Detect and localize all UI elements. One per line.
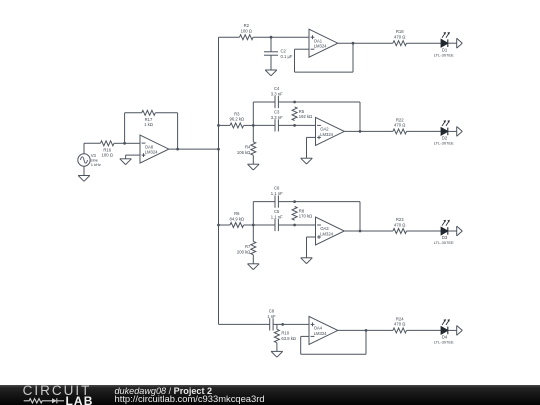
- svg-text:R6: R6: [234, 211, 240, 216]
- junction OA2 output: [359, 130, 362, 133]
- wire node to C4: [253, 101, 275, 103]
- ground right of D4: [457, 326, 463, 336]
- wire bus to R6: [219, 224, 231, 226]
- svg-text:3.3 nF: 3.3 nF: [271, 115, 283, 120]
- svg-text:170 kΩ: 170 kΩ: [299, 214, 312, 219]
- wire C6 to junction: [278, 201, 294, 203]
- footer author / project line: [115, 387, 213, 395]
- svg-text:R24: R24: [396, 316, 404, 321]
- wire OA8 output to bus: [169, 148, 219, 150]
- junction R8 bottom: [293, 224, 296, 227]
- svg-text:OA3: OA3: [320, 226, 329, 231]
- svg-text:470 Ω: 470 Ω: [394, 322, 405, 327]
- CircuitLab logo text LAB: [66, 396, 94, 405]
- wire stage2 feedback right: [359, 102, 361, 131]
- ground at OA8 plus input: [120, 159, 132, 165]
- resistor R22: [393, 117, 407, 133]
- svg-text:R10: R10: [281, 331, 289, 336]
- wire node to OA8 inverting input: [125, 142, 140, 144]
- svg-text:LTL-307EE: LTL-307EE: [434, 340, 454, 345]
- wire D1 to ground: [448, 42, 457, 44]
- wire D4 to ground: [448, 329, 457, 331]
- junction R5 bottom: [293, 124, 296, 127]
- wire OA4 output: [338, 329, 393, 331]
- wire R23 to D3: [407, 230, 442, 232]
- svg-text:192 kΩ: 192 kΩ: [299, 114, 312, 119]
- capacitor C6: [271, 186, 283, 208]
- svg-text:C5: C5: [274, 209, 280, 214]
- ground below C2: [265, 70, 277, 76]
- capacitor C4: [271, 86, 283, 108]
- ground below V3: [78, 176, 90, 182]
- LED D4: [434, 319, 454, 345]
- wire V3 bottom: [83, 166, 85, 175]
- wire OA1 feedback bottom: [295, 71, 354, 73]
- junction feedback/output OA8: [176, 148, 179, 151]
- wire R4 to ground: [252, 155, 254, 164]
- wire R6 to node: [244, 224, 254, 226]
- wire OA2 plus ground stub: [307, 137, 316, 158]
- wire R10 to ground: [276, 343, 278, 352]
- svg-text:R23: R23: [396, 217, 404, 222]
- resistor R16: [100, 141, 114, 158]
- svg-text:C4: C4: [274, 86, 280, 91]
- svg-text:LTL-307EE: LTL-307EE: [434, 240, 454, 245]
- svg-text:LM324: LM324: [320, 232, 333, 237]
- wire node to C5: [253, 224, 275, 226]
- capacitor C8: [267, 308, 276, 330]
- junction OA8 output at bus: [217, 148, 220, 151]
- op-amp OA2: [316, 117, 345, 145]
- junction OA3 output: [359, 230, 362, 233]
- svg-text:100 Ω: 100 Ω: [241, 29, 252, 34]
- resistor R7: [237, 241, 256, 254]
- wire stage3 feedback right: [359, 202, 361, 231]
- wire OA1 feedback right: [352, 43, 354, 72]
- svg-text:LTL-307EE: LTL-307EE: [434, 141, 454, 146]
- junction OA1 output: [352, 42, 355, 45]
- logo diode: [52, 398, 57, 403]
- wire R7 to ground: [252, 255, 254, 264]
- wire C3 to junction: [278, 124, 294, 126]
- resistor R23: [393, 217, 407, 234]
- wire to OA2 inverting input: [295, 124, 316, 126]
- wire stage3 feedback top: [295, 201, 360, 203]
- wire D3 to ground: [448, 230, 457, 232]
- op-amp OA8: [140, 135, 169, 163]
- svg-text:OA1: OA1: [314, 38, 323, 43]
- LED D3: [434, 220, 454, 246]
- capacitor C5: [271, 209, 283, 231]
- wire OA3 output: [344, 230, 393, 232]
- svg-text:LTL-307EE: LTL-307EE: [434, 52, 454, 57]
- wire bus to R2: [219, 36, 240, 38]
- junction C2 tap: [270, 36, 273, 39]
- LED D2: [434, 120, 454, 146]
- resistor R10: [274, 329, 296, 342]
- resistor R4: [237, 142, 256, 155]
- svg-text:R7: R7: [245, 244, 251, 249]
- svg-text:1 kΩ: 1 kΩ: [144, 122, 153, 127]
- svg-text:84.9 kΩ: 84.9 kΩ: [230, 216, 245, 221]
- junction stage3 node: [252, 224, 255, 227]
- wire OA3 plus ground stub: [307, 237, 316, 258]
- svg-text:1.1 nF: 1.1 nF: [271, 214, 283, 219]
- junction stage4 node: [281, 323, 284, 326]
- svg-text:OA2: OA2: [320, 127, 329, 132]
- op-amp OA4: [309, 316, 338, 344]
- resistor R5: [292, 107, 312, 121]
- wire OA4 feedback bottom: [301, 353, 366, 355]
- wire stage3 top vertical: [252, 202, 254, 225]
- svg-text:LM324: LM324: [314, 331, 327, 336]
- CircuitLab logo schematic squiggle: [0, 385, 75, 405]
- svg-text:OA8: OA8: [145, 144, 154, 149]
- wire node to R7: [252, 225, 254, 241]
- op-amp OA1: [309, 29, 338, 57]
- svg-text:96.2 kΩ: 96.2 kΩ: [230, 117, 245, 122]
- wire R17 to right vertical: [155, 112, 177, 114]
- resistor R24: [393, 316, 407, 333]
- ground right of D3: [457, 226, 463, 236]
- voltage source V3: [78, 153, 101, 167]
- wire OA1 feedback left: [295, 49, 310, 72]
- ground below R4: [248, 164, 260, 170]
- svg-text:R22: R22: [396, 117, 404, 122]
- resistor R17: [142, 110, 156, 127]
- wire R17 right vertical: [177, 113, 179, 149]
- svg-text:R2: R2: [244, 23, 250, 28]
- CircuitLab logo text CIRCUIT: [23, 384, 92, 398]
- footer url line: [115, 395, 265, 403]
- resistor R2: [240, 23, 254, 40]
- junction stage2 node: [252, 124, 255, 127]
- svg-text:0.1 μF: 0.1 μF: [281, 54, 293, 59]
- ground right of D2: [457, 127, 463, 137]
- svg-text:LM324: LM324: [145, 150, 158, 155]
- ground right of D1: [457, 38, 463, 48]
- wire R3 to node: [244, 124, 254, 126]
- wire OA8 plus ground stub: [126, 155, 140, 159]
- wire D2 to ground: [448, 130, 457, 132]
- wire R22 to D2: [407, 130, 442, 132]
- wire OA1 output: [338, 42, 393, 44]
- svg-text:C6: C6: [274, 186, 280, 191]
- svg-text:200 kΩ: 200 kΩ: [237, 249, 250, 254]
- wire node to C3: [253, 124, 275, 126]
- junction R8 top: [293, 200, 296, 203]
- wire to R10: [276, 324, 278, 329]
- wire V3 top: [83, 143, 85, 154]
- wire to R17: [125, 112, 142, 114]
- junction R5 top: [293, 101, 296, 104]
- node junction R16/R17: [123, 142, 126, 145]
- svg-text:R3: R3: [234, 111, 240, 116]
- ground below R7: [248, 264, 260, 270]
- wire main bus vertical: [218, 37, 220, 324]
- wire node to R4: [252, 125, 254, 141]
- junction stage3 input at bus: [217, 224, 220, 227]
- wire C5 to junction: [278, 224, 294, 226]
- wire R2 to OA1: [253, 36, 309, 38]
- svg-text:470 Ω: 470 Ω: [394, 123, 405, 128]
- wire R17 left vertical: [124, 113, 126, 144]
- wire to C2: [270, 37, 272, 52]
- wire node to C6: [253, 201, 275, 203]
- wire stage2 feedback top: [295, 101, 360, 103]
- wire to OA3 inverting input: [295, 224, 316, 226]
- svg-text:106 kΩ: 106 kΩ: [237, 150, 250, 155]
- svg-text:OA4: OA4: [314, 326, 323, 331]
- svg-text:470 Ω: 470 Ω: [394, 222, 405, 227]
- junction stage2 input at bus: [217, 124, 220, 127]
- logo resistor zigzag: [24, 399, 52, 403]
- junction OA4 output: [365, 329, 368, 332]
- svg-text:63.8 kΩ: 63.8 kΩ: [281, 336, 296, 341]
- resistor R18: [393, 29, 407, 46]
- op-amp OA3: [316, 217, 345, 245]
- resistor R8: [292, 207, 312, 221]
- ground below R10: [271, 351, 283, 357]
- capacitor C3: [271, 109, 283, 131]
- ground at OA2 plus input: [301, 158, 313, 164]
- wire bus to C8: [219, 323, 270, 325]
- svg-text:R18: R18: [396, 29, 404, 34]
- svg-text:1 nF: 1 nF: [267, 314, 276, 319]
- svg-text:1 kHz: 1 kHz: [91, 162, 101, 167]
- svg-text:C8: C8: [269, 308, 275, 313]
- svg-text:R4: R4: [245, 144, 251, 149]
- wire C2 to ground: [270, 55, 272, 70]
- svg-text:LM324: LM324: [314, 44, 327, 49]
- svg-text:3.3 nF: 3.3 nF: [271, 91, 283, 96]
- resistor R3: [230, 111, 245, 128]
- svg-text:LM324: LM324: [320, 132, 333, 137]
- wire V3 to R16: [84, 142, 100, 144]
- wire R18 to D1: [407, 42, 442, 44]
- wire bus to R3: [219, 124, 231, 126]
- svg-text:100 Ω: 100 Ω: [102, 153, 113, 158]
- svg-text:470 Ω: 470 Ω: [394, 35, 405, 40]
- wire R24 to D4: [407, 329, 442, 331]
- svg-text:C2: C2: [281, 49, 287, 54]
- wire R16 to node: [114, 142, 125, 144]
- wire C8 to OA4: [273, 323, 309, 325]
- resistor R6: [230, 211, 245, 228]
- wire C4 to junction: [278, 101, 294, 103]
- capacitor C2: [264, 49, 293, 60]
- wire stage2 top vertical: [252, 102, 254, 125]
- wire OA4 feedback left: [301, 336, 309, 354]
- LED D1: [434, 32, 454, 58]
- wire OA4 feedback right: [365, 330, 367, 354]
- svg-text:1.1 nF: 1.1 nF: [271, 191, 283, 196]
- wire OA2 output: [344, 130, 393, 132]
- svg-text:C3: C3: [274, 109, 280, 114]
- ground at OA3 plus input: [301, 258, 313, 264]
